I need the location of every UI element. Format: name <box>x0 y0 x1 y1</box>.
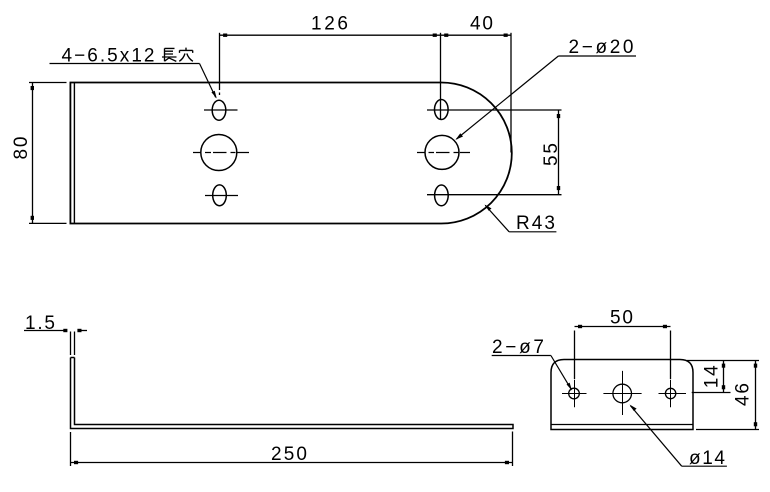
svg-text:50: 50 <box>610 308 634 329</box>
slot hole bottom-right 6.5x12 <box>427 185 562 206</box>
kanji naga (long) <box>162 48 177 61</box>
svg-text:46: 46 <box>733 382 754 406</box>
slot hole bottom-left 6.5x12 <box>205 185 238 206</box>
top view plate outline <box>70 83 511 224</box>
kanji ana (hole) <box>179 48 193 62</box>
svg-text:2−ø7: 2−ø7 <box>492 337 545 358</box>
slot hole top-right 6.5x12 <box>427 100 562 120</box>
dimension 126 <box>220 14 441 121</box>
dimension 1.5 <box>24 313 87 355</box>
end view outline <box>551 360 693 430</box>
svg-text:80: 80 <box>11 136 32 160</box>
dimension 14 <box>687 361 759 393</box>
svg-text:40: 40 <box>470 14 494 35</box>
dimension 80 <box>11 83 67 224</box>
dimension 46 <box>696 361 759 430</box>
top view bend line <box>73 83 75 224</box>
label 2-ø20 leader <box>455 37 636 140</box>
svg-text:R43: R43 <box>516 213 556 234</box>
hole ø7 left <box>562 380 587 408</box>
dimension 55 <box>541 110 562 195</box>
side view L profile <box>71 358 514 429</box>
label 2-ø7 leader <box>492 337 572 391</box>
label 4-6.5x12 slot leader <box>50 46 217 99</box>
dimension 40 <box>441 14 512 153</box>
label R43 leader <box>485 205 557 235</box>
hole ø14 middle <box>603 371 641 415</box>
svg-text:2−ø20: 2−ø20 <box>569 37 635 58</box>
dimension 250 <box>71 432 513 467</box>
round hole left ø20 <box>193 135 249 171</box>
dimension 50 <box>575 308 671 380</box>
hole ø7 right <box>659 380 687 408</box>
svg-text:14: 14 <box>702 364 723 388</box>
svg-text:126: 126 <box>311 14 349 35</box>
round hole right ø20 <box>417 135 470 169</box>
svg-text:55: 55 <box>541 142 562 166</box>
svg-text:250: 250 <box>271 444 308 465</box>
label ø14 leader <box>630 405 727 470</box>
slot hole top-left 6.5x12 <box>204 100 238 120</box>
